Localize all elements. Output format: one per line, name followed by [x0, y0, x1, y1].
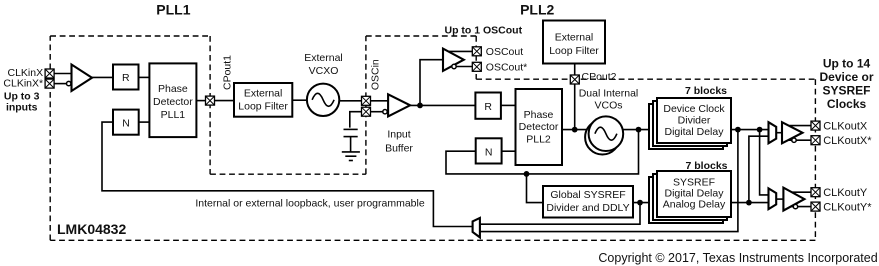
- wire OSCin pin to OSCin buffer: [371, 100, 389, 102]
- OSCout buffer bubble: [452, 64, 456, 68]
- svg-text:CPout2: CPout2: [582, 71, 617, 83]
- pin CLKoutX*: [811, 136, 820, 145]
- wire loopback mux out to N1: [102, 122, 473, 226]
- junction VCO out: [636, 127, 642, 133]
- wire feedback branch to global SYSREF divider: [527, 174, 544, 203]
- wire OSCin* pin to OSCin buffer bubble: [371, 111, 383, 113]
- SYSREF delay stack: [649, 171, 731, 223]
- wire R2 to phase detector PLL2: [501, 104, 516, 106]
- wire CLKinX* pin to input buffer bubble: [54, 83, 66, 85]
- svg-text:OSCout: OSCout: [486, 46, 523, 58]
- CLKoutY mux: [769, 188, 777, 209]
- wire N2 to phase detector PLL2: [502, 150, 516, 152]
- svg-text:PLL1: PLL1: [161, 109, 186, 121]
- pin OSCout: [472, 47, 481, 56]
- pin CLKoutY: [811, 188, 820, 197]
- svg-text:CLKoutX*: CLKoutX*: [823, 135, 872, 147]
- svg-text:7 blocks: 7 blocks: [685, 160, 727, 172]
- wire loop filter to VCXO: [292, 99, 307, 101]
- wire CLKoutY mux to driver: [776, 198, 783, 200]
- junction SYSREF out: [746, 200, 752, 206]
- wire buffer to R1: [92, 76, 114, 78]
- chip boundary OSCout jog: [475, 36, 477, 79]
- capacitor top plate: [344, 128, 358, 130]
- phase detector PLL1: [149, 63, 196, 137]
- chip boundary left edge: [49, 36, 51, 240]
- capacitor stem: [350, 137, 352, 152]
- CLKoutX driver: [782, 122, 803, 143]
- CLKoutY driver: [783, 188, 804, 211]
- wire external loop filter 2 to CPout2 pin: [574, 64, 576, 76]
- wire VCO out to device clock divider stack: [623, 129, 660, 131]
- svg-text:LMK04832: LMK04832: [57, 221, 126, 237]
- svg-text:inputs: inputs: [6, 101, 38, 113]
- wire R1 to phase detector PLL1: [139, 76, 150, 78]
- pin OSCin: [362, 96, 371, 105]
- junction device out B: [757, 127, 763, 133]
- wire N1 to phase detector PLL1: [139, 121, 150, 123]
- svg-text:Detector: Detector: [519, 121, 559, 133]
- capacitor bottom plate: [344, 136, 358, 138]
- wire OSCout buffer upper out to OSCout pin: [449, 50, 473, 52]
- junction global SYSREF out: [637, 200, 643, 206]
- label Up to 14 Device or SYSREF Clocks: [819, 57, 873, 112]
- pin CPout2: [570, 75, 579, 84]
- svg-text:Loop Filter: Loop Filter: [549, 45, 599, 57]
- svg-text:Digital Delay: Digital Delay: [665, 126, 725, 138]
- OSCin buffer bubble: [383, 110, 387, 114]
- pin CLKoutY*: [811, 202, 820, 211]
- wire OSCin* branch to bypass capacitor: [350, 112, 362, 128]
- external VCXO: [307, 84, 339, 116]
- pin CPout1: [206, 96, 215, 105]
- junction OSCin buffer out: [417, 103, 423, 109]
- svg-text:Loop Filter: Loop Filter: [238, 101, 288, 113]
- wire CLKoutX driver to pins: [786, 126, 811, 141]
- R divider PLL1: [113, 65, 139, 90]
- chip boundary top-left segment: [50, 35, 210, 37]
- wire OSCin buffer to R2: [410, 104, 475, 106]
- pin CLKinX*: [45, 79, 54, 88]
- svg-text:PLL2: PLL2: [526, 133, 551, 145]
- CLKoutX mux: [769, 122, 777, 143]
- chip boundary notch bottom: [210, 173, 366, 175]
- svg-text:Device or: Device or: [819, 70, 873, 84]
- N divider PLL2: [476, 138, 502, 163]
- svg-text:Dual Internal: Dual Internal: [579, 87, 639, 99]
- svg-text:OSCin: OSCin: [370, 59, 382, 90]
- wire branch up to OSCout buffer: [420, 60, 443, 106]
- chip boundary PLL2 left edge: [365, 36, 367, 174]
- svg-text:SYSREF: SYSREF: [822, 84, 870, 98]
- junction feedback to global SYSREF: [524, 171, 530, 177]
- device clock divider stack: [649, 98, 731, 149]
- dual internal VCOs: [585, 116, 623, 154]
- svg-text:CLKoutY*: CLKoutY*: [823, 201, 872, 213]
- svg-text:CPout1: CPout1: [222, 55, 234, 90]
- loopback mux: [473, 218, 480, 238]
- svg-text:External: External: [555, 32, 594, 44]
- svg-text:PLL2: PLL2: [520, 2, 554, 18]
- svg-text:Divider: Divider: [678, 115, 711, 127]
- chip boundary bottom edge: [50, 239, 815, 241]
- svg-text:Internal or external loopback,: Internal or external loopback, user prog…: [195, 198, 425, 210]
- svg-text:Up to 1 OSCout: Up to 1 OSCout: [445, 25, 523, 37]
- wire SYSREF branch up to CLKoutX mux: [749, 136, 769, 202]
- svg-text:Up to 14: Up to 14: [823, 57, 871, 71]
- OSCin buffer: [388, 94, 410, 116]
- wire SYSREF stack out to CLKoutY mux: [731, 202, 769, 204]
- svg-text:7 blocks: 7 blocks: [685, 85, 727, 97]
- CLKoutY driver bubble: [793, 204, 797, 208]
- wire CLKoutX mux to driver: [776, 132, 782, 134]
- R divider PLL2: [475, 93, 501, 119]
- svg-text:External: External: [304, 52, 343, 64]
- chip boundary top-right segment: [476, 78, 815, 80]
- wire device branch down to CLKoutY mux: [760, 130, 769, 195]
- pin CLKinX: [45, 69, 54, 78]
- svg-text:OSCout*: OSCout*: [486, 62, 527, 74]
- chip boundary top-mid segment: [366, 35, 476, 37]
- junction CPout2 node: [572, 127, 578, 133]
- svg-text:R: R: [484, 101, 492, 113]
- chip boundary right edge: [814, 79, 816, 240]
- svg-text:Analog Delay: Analog Delay: [663, 198, 726, 210]
- ground: [342, 152, 360, 161]
- wire global SYSREF out to SYSREF stack: [633, 202, 660, 204]
- wire device stack out to CLKoutX mux: [731, 129, 769, 131]
- svg-text:Buffer: Buffer: [385, 142, 413, 154]
- junction device out A: [735, 127, 741, 133]
- svg-text:N: N: [485, 146, 493, 158]
- wire CPout1 pin to external loop filter: [215, 100, 235, 102]
- svg-text:R: R: [122, 72, 130, 84]
- phase detector PLL2: [516, 89, 563, 165]
- svg-text:PLL1: PLL1: [156, 2, 190, 18]
- wire device branch down to loopback mux: [480, 130, 738, 232]
- svg-text:CLKinX*: CLKinX*: [3, 77, 43, 89]
- svg-text:CLKoutY: CLKoutY: [823, 187, 868, 199]
- pin OSCout*: [472, 62, 481, 71]
- svg-text:Detector: Detector: [153, 96, 193, 108]
- wire PD1 to CPout1 pin: [196, 100, 205, 102]
- external loop filter PLL2: [543, 21, 605, 64]
- global SYSREF divider box: [543, 186, 633, 218]
- N divider PLL1: [113, 110, 139, 135]
- svg-text:Phase: Phase: [158, 83, 188, 95]
- external loop filter PLL1: [234, 83, 292, 117]
- input buffer bubble: [67, 81, 71, 85]
- svg-text:Device Clock: Device Clock: [663, 103, 725, 115]
- svg-text:Input: Input: [387, 129, 410, 141]
- wire global SYSREF branch down to loopback mux: [480, 203, 640, 225]
- svg-text:Clocks: Clocks: [827, 97, 867, 111]
- svg-text:CLKoutX: CLKoutX: [823, 120, 868, 132]
- CLKoutX driver bubble: [792, 138, 796, 142]
- svg-text:VCOs: VCOs: [594, 100, 622, 112]
- svg-text:Divider and DDLY: Divider and DDLY: [546, 202, 629, 214]
- svg-text:External: External: [244, 87, 283, 99]
- OSCout buffer: [443, 49, 464, 71]
- wire VCO feedback to N2: [446, 130, 639, 174]
- chip boundary PLL1 notch right edge: [209, 36, 211, 174]
- input buffer U1: [72, 65, 93, 92]
- wire CLKoutY driver to pins: [788, 192, 812, 206]
- wire CPout2 node down to PD2 output: [574, 84, 576, 130]
- svg-text:N: N: [122, 117, 130, 129]
- wire CLKinX pin to input buffer: [54, 73, 71, 75]
- pin OSCin*: [362, 107, 371, 116]
- svg-text:Copyright © 2017, Texas Instru: Copyright © 2017, Texas Instruments Inco…: [598, 251, 877, 265]
- svg-text:Phase: Phase: [524, 109, 554, 121]
- svg-text:VCXO: VCXO: [309, 65, 339, 77]
- pin CLKoutX: [811, 121, 820, 130]
- wire VCXO to OSCin pin: [339, 100, 361, 102]
- wire PD2 to VCO: [562, 129, 589, 131]
- wire OSCout buffer lower out to OSCout* pin: [450, 66, 472, 68]
- svg-text:Global SYSREF: Global SYSREF: [550, 189, 625, 201]
